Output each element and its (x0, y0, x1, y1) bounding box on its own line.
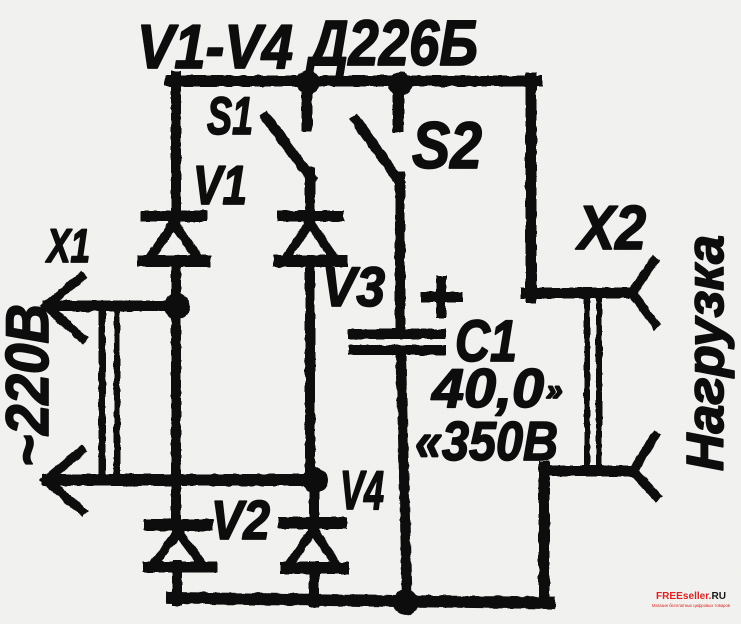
svg-text:«350В: «350В (415, 410, 558, 472)
connector X1 lower arrow (46, 451, 81, 480)
switch S1 stub (302, 82, 313, 126)
node A: X1 upper / V1-V2 (164, 293, 190, 319)
wire X1 lower lead (48, 474, 315, 486)
wire right vertical from top rail to X2 (526, 78, 537, 298)
svg-text:V1: V1 (193, 154, 247, 216)
wire V1 anode to node (171, 260, 181, 308)
svg-text:FREEseller.RU: FREEseller.RU (656, 590, 726, 602)
node dot top S1 (296, 70, 320, 94)
svg-text:Д226Б: Д226Б (305, 7, 478, 79)
wire X2 upper lead (526, 288, 631, 299)
svg-text:V1-V4: V1-V4 (137, 13, 293, 82)
wire C1 to bottom rail (401, 354, 407, 601)
svg-text:S2: S2 (412, 108, 482, 182)
wire X2 parallel line 1 (584, 298, 590, 469)
svg-text:Магазин бесплатных цифровых то: Магазин бесплатных цифровых товаров (652, 603, 731, 608)
wire left vertical upper (171, 76, 181, 212)
capacitor C1 plates (353, 329, 441, 339)
diode V2 (148, 525, 212, 567)
svg-text:X2: X2 (575, 194, 646, 263)
svg-text:V3: V3 (322, 255, 385, 318)
wire X1 parallel line 1 (99, 311, 106, 478)
svg-text:V2: V2 (211, 489, 270, 551)
diode V1 (143, 216, 205, 261)
wire bottom rail (172, 598, 549, 603)
svg-text:X1: X1 (45, 219, 90, 272)
node dot top S2 (388, 72, 412, 96)
wire X1 parallel line 2 (114, 311, 120, 478)
logo FREEseller.RU (652, 590, 731, 608)
wire left vertical lower (171, 306, 181, 521)
switch S2 stub (393, 84, 404, 127)
wire X2 lower lead (544, 466, 631, 477)
node dot bottom C1 (393, 589, 419, 615)
connector X2 lower fork (633, 436, 655, 471)
wire top rail (170, 76, 537, 87)
wire S2 to C1 (395, 176, 405, 331)
wire S1 to V3 (305, 172, 315, 212)
svg-text:»: » (546, 374, 563, 407)
node B: X1 lower / V3-V4 (302, 467, 328, 493)
svg-text:Нагрузка: Нагрузка (677, 235, 735, 471)
wire right-bottom vertical (539, 466, 550, 602)
wire X2 parallel line 2 (596, 298, 602, 469)
switch S2 blade (356, 120, 399, 181)
polarity plus sign of C1 (426, 281, 458, 313)
diode V3 (279, 216, 341, 261)
wire V3 anode to node (310, 260, 314, 519)
switch S1 blade (266, 117, 311, 178)
wire V4 anode to bottom rail (309, 566, 319, 602)
connector X1 upper arrow (46, 277, 81, 306)
svg-text:~220В: ~220В (0, 304, 61, 467)
diode V4 (284, 523, 343, 568)
svg-text:V4: V4 (340, 459, 384, 521)
wire X1 upper lead (48, 301, 177, 312)
svg-text:S1: S1 (207, 87, 253, 146)
wire V2 anode to bottom rail (172, 565, 182, 601)
connector X2 upper fork (632, 261, 654, 293)
